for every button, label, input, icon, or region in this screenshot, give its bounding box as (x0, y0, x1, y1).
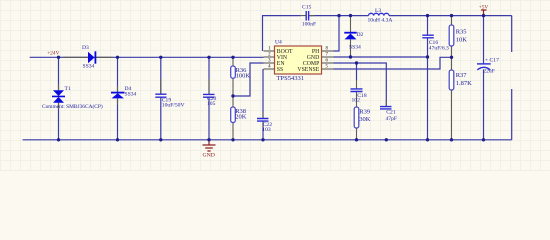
junction rail +5V (482, 14, 485, 17)
junction bottom D4 (116, 138, 119, 141)
junction rail C16 (426, 14, 429, 17)
junction bottom GND (207, 138, 210, 141)
wire C22 bottom (262, 121, 264, 140)
diode D4 (111, 86, 137, 98)
IC U4 TPS54331 buck regulator (268, 40, 328, 83)
junction bottom C19 (159, 138, 162, 141)
junction bottom C16 (426, 138, 429, 141)
wire bottom ground rail (23, 139, 512, 141)
power +5V (479, 5, 489, 16)
wire C20 top (208, 57, 210, 94)
svg-text:SS: SS (277, 67, 283, 73)
wire COMP to C18 branch (356, 63, 358, 80)
wire +24V input rail (30, 56, 264, 58)
svg-text:T1: T1 (65, 86, 71, 92)
svg-text:100K: 100K (236, 72, 251, 79)
svg-text:R35: R35 (456, 29, 467, 36)
svg-text:SS34: SS34 (349, 44, 361, 50)
junction input T1 (57, 56, 60, 59)
capacitor C16 (422, 35, 449, 52)
wire C19 bottom (160, 97, 162, 139)
junction VSENSE divider (450, 56, 453, 59)
wire GND pin net (334, 56, 428, 58)
wire D2 leads (350, 16, 352, 57)
wire C17 vertical (483, 16, 485, 140)
svg-text:VSENSE: VSENSE (297, 67, 319, 73)
wire SS to C22 (262, 69, 264, 118)
pin 7 GND stub (322, 56, 334, 58)
pin 4 SS stub (264, 68, 275, 70)
pin 1 BOOT stub (264, 50, 275, 52)
svg-text:R37: R37 (456, 72, 468, 79)
capacitor C17 polarized (477, 58, 499, 75)
junction input C20 (207, 56, 210, 59)
pin 3 EN stub (264, 62, 275, 64)
resistor R37 (449, 70, 472, 90)
resistor R35 (449, 25, 467, 46)
junction gnd-net D2 (349, 55, 352, 58)
wire R35 R37 chain leads (451, 16, 453, 140)
svg-text:47uF/6.3: 47uF/6.3 (429, 46, 449, 52)
ground symbol GND (203, 140, 216, 159)
wire C19 top (160, 57, 162, 94)
wire C19 C20 upper leads (161, 79, 209, 94)
svg-text:+24V: +24V (47, 50, 59, 56)
junction COMP C18 (355, 61, 358, 64)
svg-text:10K: 10K (456, 36, 468, 43)
junction bottom C22 (261, 138, 264, 141)
junction divider EN (231, 94, 234, 97)
wire D4 bottom (117, 98, 119, 139)
svg-text:100nF: 100nF (302, 22, 316, 28)
capacitor C19 (155, 94, 184, 108)
wire right edge lower segment (511, 89, 513, 140)
svg-text:102: 102 (352, 97, 361, 103)
wire C16 vertical (427, 16, 429, 140)
pin 5 VSENSE stub (322, 68, 334, 70)
junction bottom R39 (355, 138, 358, 141)
junction bottom R37 (450, 138, 453, 141)
wire top rail L3 to right (389, 15, 512, 17)
junction gnd-net C16 (426, 55, 429, 58)
capacitor C22 soft-start (257, 119, 272, 134)
junction input D4 (116, 56, 119, 59)
wire right edge upper segment (511, 16, 513, 52)
svg-text:1.87K: 1.87K (456, 80, 472, 87)
wire C22 leads (262, 112, 264, 127)
wire BOOT to C15 top rail (263, 16, 301, 51)
wire D3 cathode lead (96, 56, 112, 58)
wire C21 lead (385, 100, 387, 106)
resistor R38 (231, 107, 247, 123)
svg-text:Comment: SMBJ36CA(CP): Comment: SMBJ36CA(CP) (42, 103, 103, 110)
junction bottom C17 (482, 138, 485, 141)
svg-text:22uF: 22uF (483, 69, 495, 75)
svg-text:C21: C21 (386, 109, 396, 115)
svg-text:20K: 20K (235, 113, 247, 120)
svg-text:L3: L3 (375, 8, 381, 14)
wire VSENSE net (334, 57, 452, 69)
svg-text:103: 103 (262, 127, 271, 133)
junction bottom R38 (231, 138, 234, 141)
wire D4 top (117, 57, 119, 92)
svg-text:SS34: SS34 (125, 91, 137, 97)
wire COMP net (334, 63, 387, 106)
junction input C19 (159, 56, 162, 59)
svg-text:D3: D3 (82, 45, 89, 51)
svg-text:+5V: +5V (479, 5, 489, 11)
wire EN divider jog (233, 63, 264, 96)
wire C18 R39 leads (356, 80, 358, 140)
capacitor C21 (380, 107, 397, 122)
svg-text:47pF: 47pF (386, 116, 398, 122)
svg-text:SS34: SS34 (83, 63, 95, 69)
wire top rail C15 to L3 (309, 15, 369, 17)
junction rail D2 (349, 14, 352, 17)
wire T1 bottom (58, 103, 60, 140)
junction input R36 (231, 56, 234, 59)
junction bottom T1 (57, 138, 60, 141)
resistor R36 (231, 66, 251, 79)
wire C20 bottom (208, 97, 210, 139)
svg-text:105: 105 (207, 101, 216, 107)
capacitor C20 (203, 94, 217, 107)
capacitor C15 (302, 5, 316, 28)
svg-text:TPS54331: TPS54331 (277, 75, 304, 82)
wire PH to top rail (334, 16, 340, 51)
pin 6 COMP stub (322, 62, 334, 64)
svg-text:30K: 30K (359, 116, 371, 123)
svg-text:10uF/50V: 10uF/50V (162, 102, 185, 108)
svg-text:10uH 4.3A: 10uH 4.3A (368, 18, 393, 24)
TVS diode T1 (42, 86, 103, 110)
capacitor C18 (351, 89, 367, 103)
diode D3 (82, 45, 95, 69)
pin 8 PH stub (322, 50, 334, 52)
wire D4 leads (117, 86, 119, 105)
svg-text:C15: C15 (302, 5, 312, 11)
junction bottom C21 (385, 138, 388, 141)
inductor L3 (368, 8, 393, 24)
wire R36 R38 divider leads (232, 57, 234, 140)
resistor R39 (354, 107, 371, 128)
pin 2 VIN stub (264, 56, 275, 58)
junction rail R35 (450, 14, 453, 17)
wire C15 leads (301, 15, 315, 17)
wire T1 leads (58, 84, 60, 109)
svg-text:+ C17: + C17 (485, 58, 499, 64)
junction rail PH (337, 14, 340, 17)
svg-text:D2: D2 (357, 32, 364, 38)
svg-text:U4: U4 (275, 40, 282, 46)
diode D2 (344, 32, 363, 50)
svg-text:R39: R39 (359, 109, 370, 116)
wire D3 anode lead (63, 56, 88, 58)
svg-text:GND: GND (203, 152, 215, 158)
wire T1 top (58, 57, 60, 90)
